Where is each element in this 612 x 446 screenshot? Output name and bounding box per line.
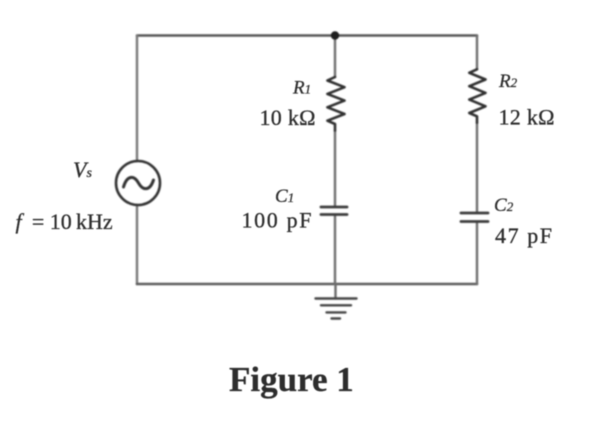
- svg-text:12 kΩ: 12 kΩ: [499, 105, 555, 130]
- svg-text:C2: C2: [494, 195, 514, 216]
- svg-text:R1: R1: [292, 78, 311, 99]
- svg-text:10 kΩ: 10 kΩ: [260, 105, 316, 130]
- svg-text:Vs: Vs: [73, 157, 92, 182]
- svg-text:C1: C1: [275, 186, 294, 207]
- svg-text:f: f: [16, 209, 25, 234]
- svg-text:47 pF: 47 pF: [495, 223, 552, 248]
- svg-text:R2: R2: [498, 71, 518, 92]
- svg-text:Figure 1: Figure 1: [229, 360, 354, 399]
- svg-text:= 10 kHz: = 10 kHz: [32, 209, 113, 234]
- svg-text:100 pF: 100 pF: [242, 208, 312, 233]
